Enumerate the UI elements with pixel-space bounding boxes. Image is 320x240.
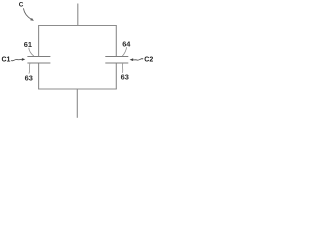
svg-text:63: 63	[25, 73, 33, 82]
wire bottom edge	[38, 88, 117, 90]
leader 64	[122, 47, 126, 56]
arrow from C1 to capacitor	[11, 59, 22, 60]
svg-text:61: 61	[24, 40, 32, 49]
svg-text:C: C	[19, 2, 24, 9]
capacitor C2 bottom plate 63	[105, 62, 128, 64]
wire left edge upper	[38, 26, 40, 57]
svg-text:64: 64	[122, 39, 131, 48]
wire right edge lower	[115, 63, 117, 89]
svg-text:C2: C2	[144, 57, 153, 64]
wire top edge	[38, 25, 117, 27]
capacitor C1 top plate 61	[27, 56, 50, 58]
wire top stub	[77, 4, 79, 26]
leader 61	[29, 48, 34, 56]
arrow from C to box	[23, 8, 31, 19]
wire right edge upper	[115, 26, 117, 57]
wire left edge lower	[38, 63, 40, 89]
wire bottom stub	[76, 89, 78, 118]
capacitor C1 bottom plate 63	[27, 62, 50, 64]
leader 63 right	[121, 64, 124, 73]
svg-text:C1: C1	[2, 57, 11, 64]
leader 63 left	[29, 64, 30, 74]
arrow from C2 to capacitor	[133, 59, 143, 61]
capacitor C2 top plate 64	[105, 56, 128, 58]
svg-text:63: 63	[121, 73, 129, 82]
